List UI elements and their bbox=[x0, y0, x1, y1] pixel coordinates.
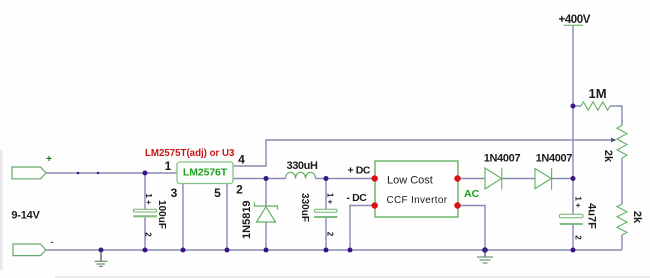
svg-text:LM2576T: LM2576T bbox=[183, 167, 228, 179]
svg-text:- DC: - DC bbox=[347, 192, 368, 204]
svg-text:+: + bbox=[46, 154, 52, 165]
svg-text:1N4007: 1N4007 bbox=[484, 153, 521, 165]
svg-text:2: 2 bbox=[144, 232, 153, 237]
svg-text:1M: 1M bbox=[588, 86, 606, 101]
svg-text:1 +: 1 + bbox=[144, 193, 153, 205]
svg-text:4: 4 bbox=[238, 153, 245, 167]
svg-text:LM2575T(adj) or U3: LM2575T(adj) or U3 bbox=[145, 148, 235, 159]
svg-text:330uF: 330uF bbox=[299, 193, 310, 222]
svg-text:AC: AC bbox=[464, 188, 480, 200]
svg-text:2: 2 bbox=[236, 183, 243, 197]
svg-text:4u7F: 4u7F bbox=[586, 203, 598, 229]
svg-text:3: 3 bbox=[171, 186, 178, 200]
svg-text:Low Cost: Low Cost bbox=[387, 175, 433, 187]
svg-text:+ DC: + DC bbox=[348, 164, 371, 176]
svg-text:1: 1 bbox=[165, 159, 172, 173]
svg-text:1 +: 1 + bbox=[326, 193, 335, 205]
svg-text:1N5819: 1N5819 bbox=[241, 200, 253, 239]
svg-text:2: 2 bbox=[326, 232, 335, 237]
svg-text:2: 2 bbox=[574, 235, 583, 240]
svg-text:CCF Invertor: CCF Invertor bbox=[387, 195, 448, 206]
svg-text:5: 5 bbox=[214, 186, 221, 200]
svg-text:2k: 2k bbox=[631, 211, 643, 224]
svg-text:+400V: +400V bbox=[559, 14, 591, 26]
svg-text:-: - bbox=[50, 237, 53, 248]
svg-text:330uH: 330uH bbox=[286, 160, 317, 172]
svg-text:100uF: 100uF bbox=[156, 200, 167, 229]
svg-text:1 +: 1 + bbox=[574, 196, 583, 208]
svg-text:9-14V: 9-14V bbox=[11, 210, 40, 222]
svg-text:2k: 2k bbox=[602, 150, 614, 163]
svg-text:1N4007: 1N4007 bbox=[536, 153, 573, 165]
